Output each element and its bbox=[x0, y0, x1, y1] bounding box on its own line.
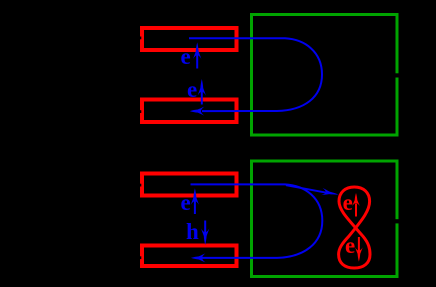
svg-text:h: h bbox=[186, 219, 199, 244]
svg-text:e: e bbox=[343, 190, 353, 215]
svg-text:e: e bbox=[181, 190, 191, 215]
svg-text:e: e bbox=[181, 44, 191, 69]
svg-text:e: e bbox=[345, 233, 355, 258]
svg-text:e: e bbox=[187, 77, 197, 102]
